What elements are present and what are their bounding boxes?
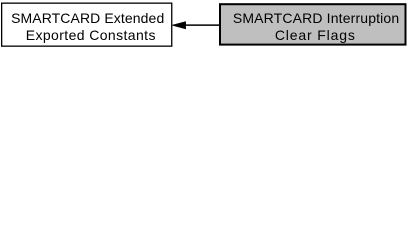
svg-text:Clear Flags: Clear Flags [275, 27, 356, 43]
svg-text:Exported Constants: Exported Constants [26, 27, 156, 43]
edge N1 to N2: arrowhead [172, 22, 185, 29]
edge N1 to N2: wire [185, 24, 220, 26]
svg-text:SMARTCARD Interruption: SMARTCARD Interruption [233, 10, 399, 26]
svg-text:SMARTCARD Extended: SMARTCARD Extended [11, 10, 164, 26]
node N1: SMARTCARD Interruption Clear Flags (current node, grey) [220, 4, 406, 44]
node N2: SMARTCARD Extended Exported Constants (box) [2, 3, 172, 46]
background [0, 0, 409, 51]
